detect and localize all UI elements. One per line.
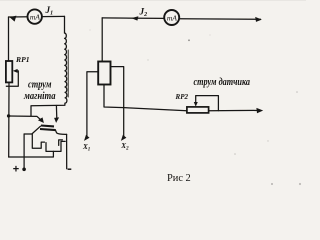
svg-text:X2: X2	[120, 142, 129, 152]
junction dot plus terminal	[22, 168, 26, 172]
coil L1 winding	[65, 33, 67, 103]
scan speck	[209, 34, 210, 35]
svg-text:RP2: RP2	[175, 92, 189, 101]
scan speck	[296, 91, 298, 93]
wire: coil bottom to left	[31, 103, 65, 116]
wire: hall right bracket	[111, 67, 124, 108]
junction dot left bus	[7, 114, 10, 117]
svg-text:струм датчика: струм датчика	[194, 77, 251, 88]
svg-text:+: +	[13, 164, 19, 176]
svg-text:mA: mA	[30, 12, 40, 21]
scan speck	[267, 140, 268, 141]
scan speck	[188, 39, 190, 41]
transistor T1 base bar	[41, 124, 54, 127]
scan speck	[299, 183, 301, 185]
wire: step under T1	[32, 134, 44, 148]
wire: step under T2	[46, 141, 65, 151]
scan speck	[147, 59, 148, 60]
svg-text:магніта: магніта	[23, 91, 55, 102]
arrow: current at top-left corner	[10, 16, 17, 22]
svg-text:mA: mA	[167, 13, 177, 22]
wire: bottom bus	[9, 151, 54, 157]
scan top edge line	[0, 0, 306, 1]
scan speck	[234, 153, 236, 155]
arrow: current on J2 wire (left-pointing)	[131, 16, 138, 20]
wire: hall bottom lead	[104, 85, 187, 111]
RP1 wiper bracket	[6, 71, 18, 86]
scan speck	[89, 29, 90, 30]
meter J2	[164, 10, 179, 25]
svg-text:X1: X1	[82, 143, 90, 153]
transistor T1 collector	[24, 126, 40, 134]
svg-text:Рис 2: Рис 2	[167, 173, 191, 184]
coil core line	[67, 50, 69, 97]
wire: X2 lead	[123, 108, 125, 139]
meter J1	[28, 9, 42, 23]
wire: minus lead	[66, 134, 68, 168]
arrow: right end of J2 wire	[255, 17, 262, 22]
arrow: right end of RP2 wire	[256, 108, 263, 113]
transistor T2 collector	[55, 130, 66, 135]
label minus terminal	[68, 168, 72, 170]
arrow: RP2 wiper	[194, 102, 198, 107]
svg-text:J1: J1	[45, 5, 54, 17]
wire: left loop top	[9, 15, 65, 18]
wire: RP2 right	[209, 109, 261, 111]
scan speck	[271, 183, 273, 185]
wire: electromagnet top lead	[64, 16, 66, 33]
wire: hall element top lead	[101, 18, 103, 62]
resistor RP1	[6, 61, 12, 82]
resistor RP2	[187, 107, 209, 113]
arrow: X1 end	[84, 135, 90, 141]
wire: branch to T2 emitter	[55, 106, 57, 119]
wire: RP1 bottom lead	[8, 82, 10, 157]
svg-text:струм: струм	[28, 79, 52, 90]
wire: hall left lead to X1	[87, 72, 98, 139]
arrow: RP1 wiper	[13, 69, 18, 73]
hall element BX	[98, 62, 110, 85]
svg-text:J2: J2	[139, 7, 148, 19]
wire: plus lead	[23, 134, 25, 169]
wire: right loop top	[102, 17, 164, 20]
wire: stub under T2	[59, 140, 63, 146]
RP2 wiper bracket	[196, 96, 219, 111]
wire: left loop left vertical	[8, 17, 10, 61]
arrow: X2 end	[121, 135, 127, 141]
svg-text:RP1: RP1	[15, 55, 30, 64]
transistor T2 base bar	[40, 129, 56, 130]
wire: bus from junction with emitter bend T1	[9, 116, 42, 121]
arrow: T1 emitter	[38, 117, 44, 123]
arrow: T2 emitter	[54, 117, 59, 123]
